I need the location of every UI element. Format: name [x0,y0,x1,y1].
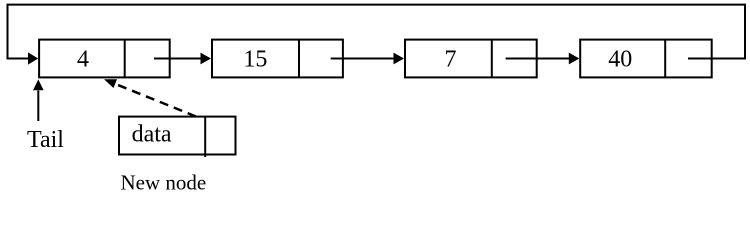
wire dashed arrow new node to N1 [104,79,196,116]
wire N4 loop back to N1 [8,5,746,65]
node NEW box [119,117,236,157]
wire Tail pointer arrow [33,79,44,121]
svg-text:15: 15 [243,47,267,73]
wire N3 next arrow [506,53,580,65]
node N2 box [212,40,343,78]
node N4 box [580,40,712,78]
wire N1 next arrow [154,53,211,65]
svg-text:40: 40 [608,47,632,73]
node N3 box [405,40,537,78]
svg-text:New node: New node [121,171,207,191]
svg-text:4: 4 [77,47,89,73]
node N1 box [39,40,170,78]
svg-text:7: 7 [445,47,457,73]
svg-text:Tail: Tail [27,127,64,153]
svg-text:data: data [132,122,172,148]
wire N2 next arrow [331,53,404,65]
